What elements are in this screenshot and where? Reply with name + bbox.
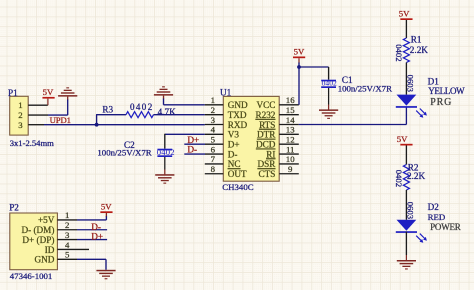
svg-text:9: 9 <box>288 164 293 174</box>
P1 pin 2 <box>18 110 48 120</box>
svg-text:2: 2 <box>65 220 69 230</box>
svg-text:2.2K: 2.2K <box>410 45 428 55</box>
svg-text:5: 5 <box>65 250 70 260</box>
svg-text:0402: 0402 <box>322 79 337 88</box>
svg-text:YELLOW: YELLOW <box>428 86 465 96</box>
svg-text:D-: D- <box>228 149 238 159</box>
svg-text:0402: 0402 <box>394 170 404 187</box>
svg-text:RTS: RTS <box>259 120 275 130</box>
U1 pin 14 RTS <box>259 115 299 130</box>
svg-text:5V: 5V <box>294 47 305 57</box>
svg-text:2.2K: 2.2K <box>407 171 425 181</box>
svg-text:3: 3 <box>211 115 216 125</box>
svg-text:10: 10 <box>286 154 295 164</box>
svg-text:DCD: DCD <box>256 140 276 150</box>
svg-text:1: 1 <box>65 210 69 220</box>
svg-text:NC: NC <box>228 159 241 169</box>
svg-text:GND: GND <box>228 100 248 110</box>
svg-text:4: 4 <box>211 125 216 135</box>
svg-text:5V: 5V <box>43 87 54 97</box>
svg-text:5V: 5V <box>101 202 112 212</box>
wire UPD1 net <box>44 124 205 126</box>
svg-text:R232: R232 <box>255 110 275 120</box>
U1 pin 9 CTS <box>259 164 299 179</box>
svg-text:R1: R1 <box>411 35 422 45</box>
junction on UPD1 <box>95 123 99 127</box>
connector P1 <box>8 88 54 148</box>
U1 pin 6 D- <box>184 144 237 159</box>
power port 5V at P1 <box>42 87 54 105</box>
P2 pin 2 D- (DM) <box>21 220 77 235</box>
svg-text:0603: 0603 <box>405 75 415 92</box>
svg-text:P1: P1 <box>8 88 18 98</box>
svg-text:D1: D1 <box>428 76 440 86</box>
svg-text:GND: GND <box>34 255 54 265</box>
U1 pin 16 VCC <box>256 95 298 110</box>
U1 pin 11 RI <box>266 144 299 159</box>
P1 pin 3 <box>18 120 44 130</box>
resistor R1 <box>394 35 428 63</box>
U1 pin 12 DCD <box>256 135 299 150</box>
svg-text:D+ (DP): D+ (DP) <box>22 235 54 245</box>
svg-text:V3: V3 <box>228 130 240 140</box>
svg-text:PRG: PRG <box>430 97 452 108</box>
U1 pin 1 GND <box>205 95 248 110</box>
wire junction to C1 <box>299 67 329 80</box>
LED D2 <box>396 202 461 243</box>
svg-text:1: 1 <box>18 100 22 110</box>
svg-text:15: 15 <box>286 105 295 115</box>
U1 pin 4 V3 <box>205 125 240 140</box>
svg-text:OUT: OUT <box>228 169 247 179</box>
svg-text:D+: D+ <box>91 232 103 242</box>
svg-text:11: 11 <box>286 144 294 154</box>
wire P2 pin5 to ground <box>77 259 106 270</box>
wire D2 to ground <box>405 232 407 255</box>
ground at U1 pin 1 <box>154 86 173 105</box>
P1 pin 1 <box>18 100 48 110</box>
svg-text:TXD: TXD <box>228 110 247 120</box>
P2 pin 1 +5V <box>38 210 77 225</box>
svg-text:DSR: DSR <box>258 159 277 169</box>
capacitor C2 <box>97 140 174 157</box>
svg-text:13: 13 <box>286 125 295 135</box>
U1 pin 13 DTR <box>257 125 299 140</box>
svg-text:5V: 5V <box>397 134 408 144</box>
svg-text:RI: RI <box>266 149 275 159</box>
svg-text:3: 3 <box>65 230 70 240</box>
svg-text:ID: ID <box>45 245 55 255</box>
svg-text:0402: 0402 <box>394 44 404 61</box>
svg-text:0402: 0402 <box>130 102 154 112</box>
svg-text:POWER: POWER <box>430 222 461 232</box>
wire R3 to TXD <box>154 114 205 116</box>
svg-text:0402: 0402 <box>157 147 175 157</box>
power port 5V at R1 <box>399 9 413 39</box>
svg-text:RED: RED <box>428 212 446 222</box>
svg-text:CH340C: CH340C <box>222 182 253 192</box>
svg-text:U1: U1 <box>220 88 232 98</box>
svg-text:6: 6 <box>211 144 216 154</box>
wire RTS to D1 <box>299 108 407 125</box>
svg-text:2: 2 <box>211 105 215 115</box>
svg-text:D- (DM): D- (DM) <box>21 225 54 235</box>
svg-text:7: 7 <box>211 154 216 164</box>
svg-text:16: 16 <box>286 95 295 105</box>
svg-text:100n/25V/X7R: 100n/25V/X7R <box>338 83 392 93</box>
wire 5V to VCC pin16 <box>298 63 300 105</box>
svg-text:P2: P2 <box>9 203 19 213</box>
svg-text:D-: D- <box>187 145 197 155</box>
svg-text:R3: R3 <box>102 105 113 115</box>
svg-text:12: 12 <box>286 135 295 145</box>
capacitor C1 <box>321 75 392 94</box>
wire junction to R3 <box>96 115 98 126</box>
svg-text:D2: D2 <box>428 202 440 212</box>
svg-text:D+: D+ <box>228 140 240 150</box>
U1 pin 5 D+ <box>184 135 239 150</box>
wire GND to U1 pin1 <box>164 104 205 106</box>
svg-text:3: 3 <box>18 120 23 130</box>
svg-text:5V: 5V <box>399 9 410 19</box>
P2 pin 4 ID <box>45 240 89 255</box>
P2 pin 3 D+ (DP) <box>22 230 77 245</box>
ground at C1 <box>319 88 338 119</box>
svg-text:5: 5 <box>211 135 216 145</box>
wire P2 pin2 D- <box>77 229 107 231</box>
svg-text:DTR: DTR <box>257 130 276 140</box>
wire P2 pin3 D+ <box>77 239 107 241</box>
U1 pin 8 OUT <box>205 164 247 179</box>
P2 pin 5 GND <box>34 250 77 265</box>
U1 pin 3 RXD <box>205 115 248 130</box>
ground at C2 <box>155 157 174 184</box>
svg-text:RXD: RXD <box>228 120 248 130</box>
svg-text:100n/25V/X7R: 100n/25V/X7R <box>97 147 151 157</box>
power port 5V at C1 <box>293 47 305 64</box>
wire V3 to C2 <box>165 134 205 149</box>
junction at C1 tap <box>297 65 301 69</box>
LED D1 <box>396 75 465 118</box>
ground at D2 <box>397 260 416 262</box>
svg-text:+5V: +5V <box>38 215 55 225</box>
svg-text:D-: D- <box>91 222 101 232</box>
ground at P1 pin 2 <box>48 87 77 115</box>
resistor R3 <box>102 102 176 117</box>
ground at P2 <box>96 270 115 272</box>
wire R1 to D1 <box>405 63 407 95</box>
svg-text:VCC: VCC <box>256 100 275 110</box>
svg-text:CTS: CTS <box>259 169 276 179</box>
U1 pin 2 TXD <box>205 105 247 120</box>
svg-text:D+: D+ <box>187 135 199 145</box>
svg-text:UPD1: UPD1 <box>50 115 71 125</box>
U1 pin 15 R232 <box>255 105 298 120</box>
power port 5V at R2 <box>397 134 413 165</box>
wire P2 pin1 to 5V <box>77 213 106 220</box>
svg-text:3x1-2.54mm: 3x1-2.54mm <box>10 138 54 148</box>
svg-text:14: 14 <box>286 115 295 125</box>
svg-text:4: 4 <box>65 240 70 250</box>
svg-text:2: 2 <box>18 110 22 120</box>
svg-text:0603: 0603 <box>406 202 416 219</box>
wire R3 left <box>96 114 126 116</box>
connector P2 <box>9 203 57 282</box>
svg-text:1: 1 <box>211 95 215 105</box>
U1 pin 10 DSR <box>258 154 299 169</box>
svg-text:47346-1001: 47346-1001 <box>10 271 53 281</box>
svg-text:8: 8 <box>211 164 216 174</box>
power port 5V at P2 <box>100 211 112 213</box>
U1 pin 7 NC <box>205 154 241 169</box>
resistor R2 <box>394 163 425 190</box>
IC U1 CH340C body <box>220 88 279 192</box>
wire R2 to D2 <box>405 190 407 220</box>
